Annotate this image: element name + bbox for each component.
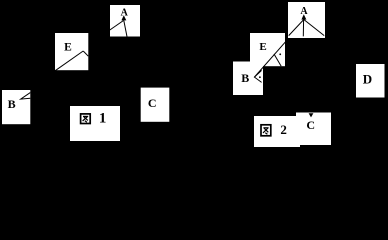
glyph 图 (figure 2 caption)	[261, 125, 271, 136]
svg-text:E: E	[259, 41, 266, 53]
label C (figure 1)	[148, 96, 157, 110]
ray leg down-right (figure 2)	[304, 20, 324, 36]
open arrowhead at B pointing down-left (figure 2)	[254, 70, 261, 82]
box C (figure 1)	[141, 88, 170, 122]
digit 1 (figure 1 caption)	[99, 111, 107, 127]
svg-text:A: A	[300, 6, 308, 17]
caption box 图2 (figure 2)	[254, 116, 300, 147]
ray leg down-left (figure 2)	[289, 20, 304, 36]
box B (figure 1)	[2, 90, 30, 124]
label C (figure 2)	[306, 118, 315, 132]
svg-text:C: C	[306, 118, 315, 132]
glyph 图 (figure 1 caption)	[81, 114, 91, 124]
label E (figure 1)	[64, 41, 72, 53]
svg-text:C: C	[148, 96, 157, 110]
label E (figure 2)	[259, 41, 266, 53]
svg-text:1: 1	[99, 111, 107, 127]
box D (figure 2)	[356, 64, 385, 98]
label B (figure 2)	[241, 71, 249, 85]
box A (figure 2)	[288, 2, 325, 38]
barb line down-right on E ray (figure 2)	[274, 54, 281, 66]
label A (figure 2)	[300, 6, 308, 17]
svg-text:A: A	[121, 7, 129, 18]
open arrowhead into B pointing down-left (figure 1)	[21, 93, 31, 100]
label D (figure 2)	[363, 72, 372, 87]
small arrowhead pointing down into C (figure 2)	[309, 113, 314, 117]
box A (figure 1)	[110, 5, 140, 37]
svg-text:E: E	[64, 41, 72, 53]
ray leg down from arrow tip (figure 1)	[124, 21, 127, 37]
ray through E up-right (figure 1)	[55, 51, 83, 71]
digit 2 (figure 2 caption)	[280, 122, 287, 137]
arrowhead up under A (figure 1)	[121, 15, 126, 20]
svg-text:D: D	[363, 72, 372, 87]
svg-text:B: B	[8, 97, 16, 111]
ray leg down-left from arrow tip (figure 1)	[110, 21, 124, 31]
label B (figure 1)	[8, 97, 16, 111]
arrowhead up under A (figure 2)	[301, 14, 306, 19]
caption box 图1 (figure 1)	[70, 106, 120, 141]
box C (figure 2)	[296, 113, 331, 146]
box E (figure 2)	[250, 33, 285, 66]
dot near B arrowhead (figure 2)	[259, 76, 261, 78]
dot near E ray (figure 2)	[279, 53, 281, 55]
svg-text:B: B	[241, 71, 249, 85]
svg-text:2: 2	[280, 122, 287, 137]
label A (figure 1)	[121, 7, 129, 18]
long ray from B through E toward A (figure 2)	[255, 39, 288, 77]
box E (figure 1)	[55, 33, 88, 70]
box B (figure 2)	[233, 62, 263, 96]
vertical ray down the middle (figure 2)	[302, 20, 304, 37]
arrow barb at E ray tip (figure 1)	[83, 51, 88, 56]
